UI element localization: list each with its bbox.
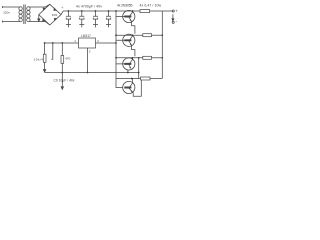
wire to plus terminal [162, 10, 172, 12]
emitter arrow Q1 [130, 19, 132, 21]
svg-text:4x 4700µF / 40v: 4x 4700µF / 40v [76, 5, 102, 9]
svg-text:LM317: LM317 [81, 34, 91, 38]
wire left base bus [116, 11, 123, 88]
transformer T1 primary lead bottom [3, 21, 20, 23]
transistor Q1 [123, 10, 135, 22]
resistor R5 470 [61, 43, 63, 56]
emitter arrow Q2 [130, 43, 132, 45]
svg-text:C9 10µF / 40v: C9 10µF / 40v [54, 79, 75, 83]
wire top bus [61, 11, 140, 15]
potentiometer RP1 [44, 43, 46, 54]
wire secondary top lead to bridge [29, 4, 50, 7]
terminal minus [172, 21, 174, 23]
node R5 junction [61, 42, 63, 44]
svg-text:470: 470 [65, 57, 70, 61]
output voltage arrow [172, 14, 174, 21]
capacitor C3 [95, 10, 97, 12]
svg-text:1: 1 [74, 39, 76, 43]
node minus arrow at bridge left corner [38, 15, 40, 22]
svg-text:4x 2N3055: 4x 2N3055 [117, 3, 133, 7]
U1 pin 1 wire [45, 42, 79, 44]
node Q1 collector junction [132, 10, 134, 12]
wire row2 line [116, 34, 143, 36]
U1 pin 2 wire [96, 42, 117, 44]
capacitor C4 [108, 10, 110, 12]
svg-text:3: 3 [89, 50, 91, 54]
node Q4 collector junction [131, 78, 133, 80]
transformer T1 primary lead top [3, 6, 20, 8]
transistor Q2 [123, 34, 135, 46]
transistor Q3 [123, 58, 135, 70]
emitter arrow Q3 [129, 66, 131, 68]
wire row3 line [116, 57, 143, 59]
bridge diode top-left [43, 8, 46, 11]
ground under C2 [79, 24, 84, 26]
wire right output bus [161, 11, 163, 79]
node pin1 line left end [44, 42, 46, 44]
node base bus junction on top bus [115, 10, 117, 12]
emitter arrow Q4 [131, 90, 133, 92]
svg-text:-: - [176, 19, 178, 24]
resistor R3 [143, 56, 152, 59]
bridge diode bottom-left [42, 19, 45, 22]
transformer T1 core [24, 5, 25, 25]
resistor R4 [141, 77, 151, 80]
U1 pin 3 wire [87, 48, 89, 73]
wire bottom bus [45, 72, 139, 74]
svg-text:4x 0,47 / 10w: 4x 0,47 / 10w [140, 3, 162, 7]
regulator U1 box [79, 38, 96, 48]
node Q3 collector junction [132, 57, 134, 59]
bridge rectifier FR1 diamond [39, 4, 61, 25]
svg-text:+: + [61, 6, 63, 10]
wire stub [51, 43, 53, 59]
capacitor C2 [81, 10, 83, 12]
svg-text:+: + [175, 9, 178, 14]
wire secondary bottom lead to bridge [29, 22, 50, 26]
capacitor C1 [68, 10, 70, 12]
terminal plus [172, 10, 174, 12]
ground under C1 [66, 24, 71, 26]
transistor Q4 [123, 81, 135, 93]
wire row3 to R4 drop [139, 58, 141, 79]
resistor R2 [143, 34, 152, 37]
ground under C3 [93, 24, 98, 26]
transformer T1 primary winding [19, 7, 22, 11]
ground under C4 [106, 24, 111, 26]
svg-text:2: 2 [97, 39, 99, 43]
wire row4 line [116, 78, 139, 80]
bridge diode bottom-right [54, 18, 57, 21]
svg-text:10k/4: 10k/4 [34, 57, 44, 61]
svg-text:220v: 220v [3, 11, 10, 15]
transformer T1 secondary winding [27, 7, 30, 11]
resistor R1 [140, 10, 150, 13]
svg-text:FR1: FR1 [52, 13, 58, 17]
bridge diode top-right [54, 8, 57, 11]
node stub junction [52, 42, 54, 44]
node Q2 collector junction [132, 34, 134, 36]
capacitor C9 arrow to negative [61, 73, 63, 90]
